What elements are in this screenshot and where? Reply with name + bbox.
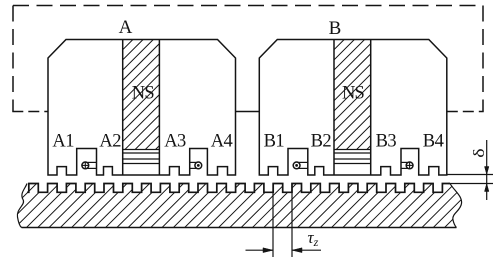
permanent magnet column left edge [122, 40, 124, 176]
svg-text:A1: A1 [52, 132, 74, 152]
delta dimension line [486, 140, 488, 200]
coil conductor in slot B1-B2 (current out of page) [299, 161, 308, 163]
rail section hatching [0, 184, 504, 228]
connecting bar between module A and module B [236, 111, 260, 113]
coil conductor in slot A3-A4 (current out of page) [190, 161, 197, 163]
coil conductor in slot B3-B4 (current into page) [401, 161, 408, 163]
svg-text:A: A [119, 17, 133, 38]
stator module B (core with poles B1-B4 and magnet column) [234, 40, 487, 176]
dashed outline - left edge [12, 6, 14, 112]
permanent magnet hatching [23, 40, 276, 150]
stator core outline with chamfered top and toothed poles [48, 40, 236, 176]
delta arrow up [485, 184, 489, 192]
stator core outline with chamfered top and toothed poles [259, 40, 447, 176]
permanent magnet column right edge [158, 40, 160, 176]
dashed outline - left stub to module A [12, 111, 48, 113]
svg-text:B4: B4 [423, 132, 444, 152]
stator module A (core with poles A1-A4 and magnet column) [23, 40, 276, 176]
dashed outline - right stub to module B [447, 111, 484, 113]
svg-text:A4: A4 [211, 132, 233, 152]
permanent magnet column right edge [370, 40, 372, 176]
rail bottom edge [22, 227, 457, 229]
air-gap extension line (pole bottom level) [447, 174, 493, 176]
dashed outline of moving carriage - top edge [13, 5, 483, 7]
air-gap extension line (rail tooth top level) [448, 183, 493, 185]
svg-text:B2: B2 [311, 132, 332, 152]
label delta (air gap) [470, 148, 488, 157]
tooth-pitch extension line 1 [272, 184, 274, 258]
tau_z dimension line right tail [292, 249, 321, 251]
rail toothed top profile [27, 184, 450, 193]
winding stack lines under magnet [123, 150, 160, 164]
tau_z dimension line left tail [246, 249, 274, 251]
rail right break line [450, 184, 462, 228]
coil conductor in slot A1-A2 (current into page) [87, 161, 96, 163]
svg-text:B3: B3 [376, 132, 397, 152]
tooth-pitch extension line 2 [291, 184, 293, 258]
svg-text:A2: A2 [99, 132, 121, 152]
tau_z arrow pointing left [292, 248, 302, 253]
tau_z arrow pointing right [263, 248, 273, 253]
winding stack lines under magnet [334, 150, 371, 164]
dashed outline - right edge [482, 6, 484, 112]
svg-text:A3: A3 [164, 132, 186, 152]
svg-text:δ: δ [470, 148, 488, 157]
permanent magnet column left edge [333, 40, 335, 176]
delta arrow down [485, 167, 489, 175]
svg-text:NS: NS [132, 84, 155, 104]
svg-text:NS: NS [342, 84, 365, 104]
svg-text:B1: B1 [264, 132, 285, 152]
svg-text:B: B [329, 18, 342, 39]
rail left break line [17, 184, 27, 228]
permanent magnet hatching [234, 40, 487, 150]
